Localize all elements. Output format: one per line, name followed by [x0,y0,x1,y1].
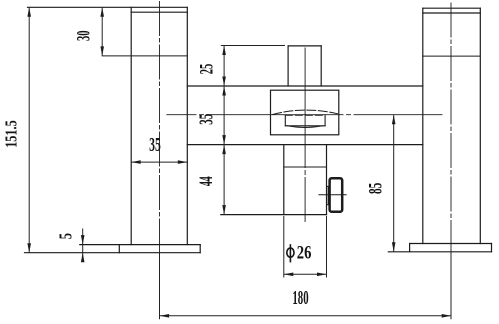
central valve box [271,90,339,135]
arrows dim 180 [160,314,170,318]
dim 151.5 line [28,7,30,252]
dim 35 pillar width line [131,161,187,163]
svg-text:25: 25 [198,64,218,75]
arrows dim 35 pillar [131,160,141,164]
svg-text:180: 180 [292,287,308,309]
right pillar centre line [450,3,452,252]
left pillar handle bottom line (with extension to 30 dim) [102,55,187,57]
spout vertical centre line [304,48,306,222]
dim 180 right ext [450,252,452,319]
shower outlet connector bottom (extends left to 44 dim) [221,214,327,216]
spout body top line [187,85,422,87]
right base plate left edge [409,244,411,252]
left pillar left edge [130,7,132,244]
right base plate bottom (extends left for 85 dim) [388,251,491,253]
shower outlet connector joint line [284,166,327,168]
svg-text:44: 44 [196,176,217,186]
svg-text:30: 30 [74,31,95,42]
arrows dim 30 [100,7,104,16]
left pillar right edge [186,7,188,244]
right pillar cap underline [423,12,481,14]
svg-text:5: 5 [56,233,76,239]
spout body bottom line [187,144,422,146]
spout inner housing top (hidden, dashed) [285,114,325,116]
left base plate left edge [118,245,120,253]
svg-text:85: 85 [366,183,386,194]
right base plate top [410,243,492,245]
left pillar centre line [159,2,161,253]
right pillar top [423,7,481,9]
arrows dim phi26 [284,273,294,277]
right pillar right edge [479,8,481,243]
dim 180 line [160,315,452,317]
dim 180 left ext [159,253,161,320]
left pillar top cap line (with extension to dimension lines) [28,6,188,8]
dim phi26 ext left [283,216,285,278]
left base plate bottom (extends to 151.5 dim) [25,252,201,254]
dim phi26 ext right [326,216,328,278]
arrows dim 5 (outside) [81,235,85,245]
right pillar handle bottom line [423,55,481,57]
svg-text:151.5: 151.5 [2,120,21,148]
spout inner housing bottom [285,125,325,127]
right pillar left edge [422,8,424,243]
right base plate right edge [491,244,493,252]
svg-text:35: 35 [197,114,218,125]
arrows chain 44 [222,145,226,155]
arrows dim 85 [392,115,396,125]
spout inner housing left edge [284,115,286,126]
side knob axis line [319,194,346,196]
left base plate top (with extension left for 5 dim) [80,244,200,246]
dim 30 line [101,7,103,56]
svg-text:35: 35 [149,134,161,156]
spout mouth upper arc [273,110,338,114]
diverter knob right edge [320,46,322,86]
arrows chain 25 [222,46,226,56]
arrows chain 35 [222,86,226,96]
ext line for 25 top [221,45,285,47]
dim phi26 line [284,273,327,275]
side knob (hose nut) [330,178,343,211]
arrows dim 151.5 [27,7,31,16]
svg-text:26: 26 [297,242,312,263]
diverter knob left edge [287,46,289,86]
diverter knob top [288,45,321,47]
left pillar cap underline [131,11,187,13]
left base plate right edge [199,245,201,253]
chain dim line 25/35/44 [223,46,225,215]
shower outlet connector left edge [283,145,285,215]
spout inner housing right edge [324,115,326,126]
dim 85 line [393,115,395,252]
spout horizontal centre line [167,114,442,116]
dim 5 line [82,229,84,262]
side knob neck [327,186,330,204]
spout mouth lower arc [287,126,323,128]
shower outlet connector right edge [326,145,328,215]
label phi26 diameter symbol [287,248,294,257]
